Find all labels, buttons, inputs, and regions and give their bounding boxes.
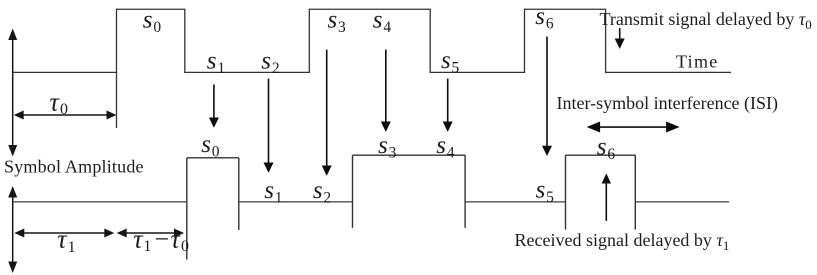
arrow under s3 xyxy=(322,50,332,176)
arrow under s5 xyxy=(443,79,453,132)
svg-text:Inter-symbol interference (ISI: Inter-symbol interference (ISI) xyxy=(557,93,779,114)
wire: received baseline segment 2 xyxy=(239,201,353,203)
svg-text:Received signal delayed by τ1: Received signal delayed by τ1 xyxy=(515,230,730,253)
dimension arrow tau0 xyxy=(14,111,117,120)
wire: tau0 dimension extension below rising edge xyxy=(116,72,118,128)
wire: received waveform baseline segment 1 xyxy=(14,201,187,203)
svg-text:Time: Time xyxy=(676,52,719,72)
dimension arrow tau1-tau0 xyxy=(117,229,184,238)
double arrow ISI xyxy=(587,122,680,133)
wire: received baseline segment 4 xyxy=(635,201,729,203)
axis: amplitude axis bottom (vertical double arrow) xyxy=(8,186,17,273)
arrow below transmit text xyxy=(615,28,625,49)
arrow under s6 xyxy=(542,37,552,157)
wire: transmit waveform xyxy=(13,9,732,72)
wire: received pulse s3-s4 xyxy=(353,155,466,228)
dimension arrow tau1 xyxy=(14,229,114,238)
arrow under s4 xyxy=(381,50,391,132)
svg-text:Symbol Amplitude: Symbol Amplitude xyxy=(4,157,144,177)
axis: amplitude axis top (vertical double arrow) xyxy=(8,29,17,157)
svg-text:Transmit signal delayed by τ0: Transmit signal delayed by τ0 xyxy=(600,9,812,32)
arrow under s1 xyxy=(209,85,219,128)
up arrow inside received s6 pulse xyxy=(602,173,611,221)
wire: received pulse s0 xyxy=(187,158,239,260)
wire: received baseline segment 3 xyxy=(465,201,565,203)
arrow under s2 xyxy=(264,79,274,173)
wire: received pulse s6 xyxy=(566,155,636,229)
